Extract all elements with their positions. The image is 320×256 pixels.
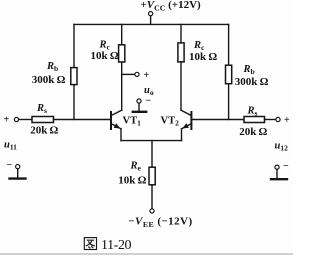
svg-text:−: − (7, 160, 13, 171)
terminal -VEE (150, 209, 154, 213)
svg-text:VT2: VT2 (161, 116, 180, 128)
svg-text:20k Ω: 20k Ω (30, 124, 58, 136)
transistor VT2 (181, 110, 191, 129)
resistor Rc left 10k body (119, 45, 125, 62)
svg-text:10k Ω: 10k Ω (91, 50, 119, 62)
svg-text:Rb: Rb (243, 64, 255, 76)
svg-text:−VEE (−12V): −VEE (−12V) (128, 216, 192, 229)
svg-text:11-20: 11-20 (101, 238, 132, 253)
svg-text:10k Ω: 10k Ω (118, 174, 146, 186)
svg-text:Rb: Rb (46, 61, 58, 73)
wire: emitter rail to Re (151, 141, 153, 168)
svg-text:+: + (4, 115, 10, 126)
resistor Re body (149, 167, 155, 185)
wire: left Rb branch top (73, 24, 75, 67)
wire: right Rs to terminal (265, 119, 276, 121)
svg-text:−: − (283, 161, 289, 172)
wire: top VCC rail (74, 23, 229, 25)
svg-text:20k Ω: 20k Ω (239, 126, 267, 138)
wire: right Rb branch top (228, 24, 230, 65)
wire: Re to VEE terminal (151, 185, 153, 209)
wire: right Rb branch bottom (228, 84, 230, 120)
terminal right ground (275, 165, 279, 169)
svg-text:VT1: VT1 (123, 116, 142, 128)
svg-text:u12: u12 (275, 141, 289, 153)
wire: left input to Rs (19, 119, 32, 121)
resistor Rc right 10k body (178, 43, 184, 62)
resistor Rb right 300k body (226, 65, 232, 84)
terminal right input (276, 117, 280, 121)
wire: VT2 emitter down (181, 129, 183, 141)
svg-text:Re: Re (130, 161, 142, 173)
svg-text:300k Ω: 300k Ω (32, 74, 66, 86)
resistor Rb left 300k body (71, 68, 77, 85)
svg-text:+: + (144, 70, 150, 81)
resistor Rs left body (32, 117, 54, 123)
wire: left Rc bottom to collector (121, 62, 123, 110)
wire: uo plus stub (122, 73, 135, 75)
terminal left ground (16, 165, 20, 169)
svg-text:Rs: Rs (36, 103, 47, 115)
terminal +VCC (149, 12, 153, 25)
svg-text:Rs: Rs (247, 106, 258, 118)
transistor VT1 (111, 110, 122, 129)
wire: right Rc branch top (180, 24, 182, 43)
wire: Rs left to VT1 base (54, 119, 111, 121)
resistor Rs right body (244, 117, 265, 123)
caption 图 glyph (drawn) (84, 238, 96, 250)
ground at uo minus (133, 103, 146, 112)
svg-text:300k Ω: 300k Ω (235, 76, 269, 88)
wire: common emitter rail (121, 140, 182, 142)
wire: VT1 emitter down (120, 129, 122, 141)
terminal uo minus (137, 99, 141, 103)
svg-text:+VCC (+12V): +VCC (+12V) (141, 0, 202, 12)
svg-text:+: + (284, 115, 290, 126)
svg-text:u11: u11 (4, 140, 17, 152)
wire: right Rc bottom to collector (180, 62, 182, 110)
terminal left input (14, 117, 18, 121)
svg-text:10k Ω: 10k Ω (189, 51, 217, 63)
wire: VT2 base to right Rs (192, 119, 244, 121)
wire: left Rc branch top (121, 24, 123, 44)
wire: left Rb branch bottom (73, 85, 75, 120)
svg-text:−: − (146, 96, 152, 107)
bottom scan line (0, 253, 293, 255)
ground left (10, 169, 26, 179)
ground right (271, 169, 287, 179)
terminal uo plus (135, 72, 139, 76)
